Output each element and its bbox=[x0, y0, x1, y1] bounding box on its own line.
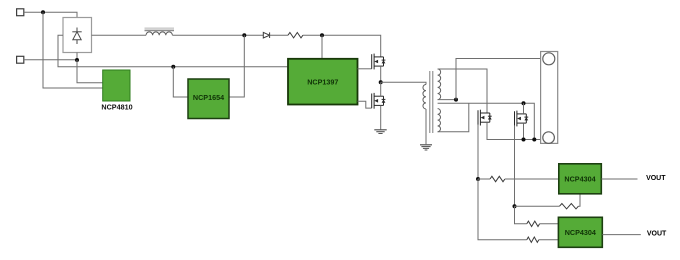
wire: NCP4304 #2 to VOUT bbox=[602, 234, 641, 236]
wire: bridge bottom pin bbox=[76, 53, 78, 61]
wire: node L to resistor R3 bbox=[515, 205, 560, 207]
block NCP4810 bbox=[103, 70, 130, 101]
wire: Q4 drain bbox=[523, 103, 525, 114]
wire: NCP1397 gate drive 1 bbox=[358, 68, 372, 70]
node H (Q4 drain junction) bbox=[522, 101, 526, 105]
wire: node D down to NCP1654 right pin bbox=[229, 35, 244, 97]
terminal J1 (AC input line) bbox=[17, 9, 24, 16]
transformer T1 core bbox=[429, 71, 431, 133]
svg-text:VOUT: VOUT bbox=[647, 230, 667, 237]
wire: secondary top tap to Q3 drain bbox=[438, 69, 487, 113]
wire: terminal J2 to bridge bottom node bbox=[24, 59, 77, 61]
resistor R3 bbox=[560, 204, 579, 209]
node F (half-bridge midpoint) bbox=[379, 80, 383, 84]
wire: secondary lower tap rail to Q4 drain and cap bottom bbox=[438, 103, 535, 139]
wire: Q2 source to ground bbox=[380, 105, 382, 129]
svg-text:VOUT: VOUT bbox=[646, 175, 666, 182]
transistor Q4 (sync rectifier 2) bbox=[515, 111, 529, 127]
node G (center tap junction) bbox=[454, 98, 458, 102]
bridge rectifier BR1 box bbox=[63, 18, 92, 53]
wire: node B to NCP1654 left pin bbox=[173, 67, 188, 97]
svg-text:NCP4304: NCP4304 bbox=[565, 228, 596, 237]
diode D1 bbox=[263, 32, 269, 38]
resistor R2 bbox=[490, 176, 505, 181]
transformer T1 secondary winding (top) bbox=[438, 69, 441, 100]
diode inside bridge BR1 bbox=[72, 28, 81, 45]
terminal J2 (AC input neutral) bbox=[17, 56, 24, 63]
transistor Q1 (high-side MOSFET) bbox=[372, 54, 386, 70]
wire: NCP1397 gate drive 2 bbox=[358, 101, 372, 108]
output capacitor C1 top terminal bbox=[543, 53, 555, 65]
wire: inductor to diode D1 bbox=[172, 34, 263, 36]
wire: node E to NCP1397 top pin bbox=[321, 35, 323, 59]
wire: resistor R3 up to NCP4304 #1 bottom pin bbox=[578, 194, 580, 206]
wire: Q3 source to output rail bbox=[487, 122, 541, 139]
wire: resistor R2 to NCP4304 #1 left pin bbox=[505, 178, 559, 180]
inductor L1 winding bbox=[146, 32, 172, 35]
wire: Q4 gate lead down bbox=[514, 126, 516, 206]
node J (rail junction) bbox=[532, 138, 536, 142]
wire: Q3 gate lead down bbox=[477, 125, 479, 179]
output capacitor C1 bottom terminal bbox=[543, 132, 555, 144]
node I (Q4 source on rail) bbox=[522, 138, 526, 142]
node A (junction on J1 wire) bbox=[41, 10, 45, 14]
inductor L1 core lines bbox=[145, 27, 175, 29]
block NCP1397 bbox=[288, 59, 358, 105]
wire: Q4 source to output rail bbox=[523, 123, 525, 139]
svg-text:NCP1654: NCP1654 bbox=[193, 93, 224, 102]
block NCP4304 U1 bbox=[559, 164, 602, 194]
ground (under transformer) bbox=[420, 145, 432, 150]
block NCP1654 bbox=[188, 79, 229, 119]
svg-text:NCP4304: NCP4304 bbox=[564, 174, 595, 183]
transformer T1 primary winding bbox=[423, 85, 426, 109]
wire: resistor R1 to half-bridge bbox=[303, 35, 381, 57]
resistor R5 bbox=[527, 237, 539, 242]
ground (primary, under Q2) bbox=[374, 130, 386, 134]
wire: NCP4304 #1 to VOUT bbox=[601, 178, 637, 180]
resistor R4 bbox=[527, 221, 540, 226]
wire: bridge right pin to boost rail bbox=[92, 34, 147, 36]
wire: node C down to NCP4810 pin 1 bbox=[77, 60, 103, 83]
wire: node K to resistor R2 bbox=[478, 178, 490, 180]
node C (bridge bottom junction) bbox=[75, 58, 79, 62]
wire: diode D1 to resistor R1 bbox=[270, 34, 288, 36]
wire: terminal J1 to bridge top bbox=[24, 12, 77, 17]
transistor Q2 (low-side MOSFET) bbox=[372, 93, 386, 109]
wire: secondary bottom tap loop bbox=[438, 103, 469, 131]
node D (junction to PFC loop) bbox=[242, 33, 246, 37]
transformer T1 secondary winding (bottom) bbox=[438, 109, 441, 132]
wire: primary bottom to ground bbox=[425, 109, 427, 144]
wire: resistor R5 to NCP4304 #2 bbox=[539, 239, 559, 241]
wire: Q2 drain from midpoint bbox=[380, 82, 382, 96]
node K (gate row junction) bbox=[476, 177, 480, 181]
wire: Q1 source to midpoint bbox=[380, 66, 382, 82]
wire: bridge left pin down and right to NCP1397 left pin bbox=[58, 35, 288, 67]
node L (Q4 gate row junction) bbox=[513, 204, 517, 208]
resistor R1 bbox=[288, 33, 303, 38]
wire: node L down to middle row bbox=[515, 206, 527, 224]
wire: node A down to NCP4810 pin 2 bbox=[43, 12, 103, 88]
node B (junction to NCP1654) bbox=[171, 65, 175, 69]
transistor Q3 (sync rectifier 1) bbox=[478, 110, 492, 126]
wire: resistor R4 to NCP4304 #2 left pin bbox=[540, 223, 559, 225]
node E (junction to NCP1397 Vcc) bbox=[320, 33, 324, 37]
wire: center tap up to output capacitor top bbox=[456, 59, 541, 100]
wire: node K down to bottom row bbox=[478, 179, 527, 240]
output capacitor C1 body bbox=[541, 52, 558, 144]
wire: secondary center tap bbox=[438, 99, 456, 101]
wire: midpoint to transformer primary bbox=[381, 82, 426, 84]
svg-text:NCP1397: NCP1397 bbox=[307, 77, 338, 86]
block NCP4304 U2 bbox=[558, 217, 602, 247]
svg-text:NCP4810: NCP4810 bbox=[101, 102, 132, 111]
